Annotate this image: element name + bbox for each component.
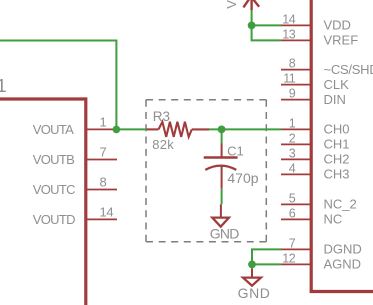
svg-text:CLK: CLK [324,77,350,92]
svg-text:R3: R3 [153,109,170,124]
svg-text:5: 5 [289,191,296,205]
resistor R3 [147,122,210,137]
svg-text:GND: GND [238,285,271,301]
pin VREF 13 [281,39,310,41]
svg-text:470p: 470p [227,170,258,186]
svg-text:8: 8 [289,57,296,71]
svg-text:CH0: CH0 [324,122,350,137]
pin VOUTA 1 [87,128,113,130]
pin DIN 9 [281,99,310,101]
svg-text:NC_2: NC_2 [324,197,357,212]
svg-text:11: 11 [283,72,296,86]
pin VOUTB 7 [87,159,117,161]
svg-text:GND: GND [210,225,239,241]
pin VOUTD 14 [87,218,117,220]
svg-text:VOUTD: VOUTD [33,212,75,227]
pin NC 6 [281,218,310,220]
svg-text:AGND: AGND [324,257,362,272]
pin CH3 4 [281,173,310,175]
pin CLK 11 [281,84,310,86]
svg-text:CH3: CH3 [324,167,350,182]
pin AGND 12 [281,263,310,265]
pin CH2 3 [281,158,310,160]
pin VOUTC 8 [87,189,117,191]
svg-text:1: 1 [0,75,7,96]
pin ~CS/SHD 8 [281,69,310,71]
pin CH0 1 [281,128,310,130]
dashed group box around RC filter [146,100,266,242]
wire VOUTA net top-left [0,41,116,130]
svg-text:2: 2 [289,131,296,145]
wire VOUTA to R3 [116,128,146,130]
svg-text:VOUTC: VOUTC [33,182,75,197]
svg-text:V: V [224,0,239,9]
svg-text:NC: NC [324,212,343,227]
svg-text:~CS/SHD: ~CS/SHD [324,62,373,77]
node junction VDD/VREF [248,22,256,30]
pin CH1 2 [281,143,310,145]
supply V+ arrow top [243,0,259,10]
svg-text:VDD: VDD [324,18,351,33]
svg-text:VOUTB: VOUTB [33,152,74,167]
svg-text:13: 13 [282,27,295,41]
svg-text:14: 14 [100,205,114,220]
svg-text:DGND: DGND [324,242,362,257]
pin VDD 14 [281,24,310,26]
IC U1 left (partial box) [0,97,86,305]
capacitor C1 [204,144,238,189]
wire junction to GND2 [251,264,253,269]
svg-text:6: 6 [289,206,296,220]
svg-text:1: 1 [289,116,296,130]
svg-text:VOUTA: VOUTA [33,122,74,137]
svg-text:1: 1 [100,115,107,130]
svg-text:7: 7 [100,145,107,160]
svg-text:9: 9 [289,87,296,101]
svg-text:12: 12 [282,251,295,265]
svg-text:CH2: CH2 [324,152,350,167]
IC U2 right (partial box) [310,0,373,292]
svg-text:8: 8 [100,175,107,190]
wire junction down to C1 [221,129,223,144]
wire supply to VDD [251,10,253,25]
node junction VOUTA [113,126,121,134]
pin DGND 7 [281,248,310,250]
svg-text:DIN: DIN [324,92,346,107]
svg-text:14: 14 [282,12,295,26]
node junction AGND/DGND [248,261,256,269]
wire AGND [252,263,281,265]
node junction C1 top [218,125,226,133]
wire supply to VREF [252,25,281,40]
svg-text:7: 7 [289,236,296,250]
svg-text:4: 4 [289,161,296,175]
svg-text:82k: 82k [152,137,174,152]
wire C1 to GND [221,189,223,205]
ground GND bottom [251,269,253,277]
ground GND under C1 [220,204,222,217]
svg-text:C1: C1 [227,143,244,158]
pin NC_2 5 [281,203,310,205]
wire R3 to CH0 [209,128,281,130]
svg-text:3: 3 [289,146,296,160]
wire DGND [252,249,281,264]
svg-text:CH1: CH1 [324,137,350,152]
svg-text:VREF: VREF [324,33,359,48]
